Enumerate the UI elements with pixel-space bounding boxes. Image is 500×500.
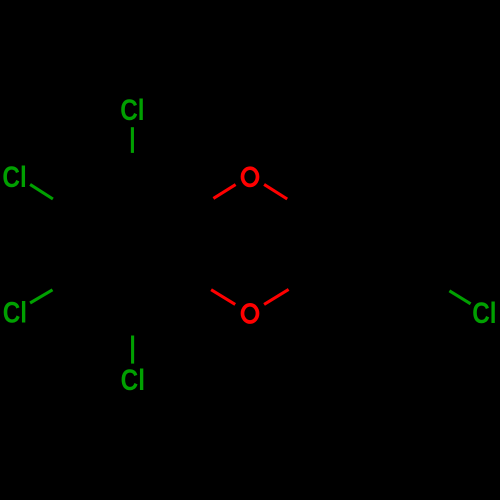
- svg-text:Cl: Cl: [120, 92, 144, 126]
- bond C-Cl right (chlorine half, green stub): [449, 291, 470, 304]
- svg-text:Cl: Cl: [472, 295, 496, 329]
- bond C-Cl top (chlorine half, green stub): [131, 127, 134, 153]
- atom label Cl top: [120, 92, 144, 126]
- atom label O bottom (drawn as ring): [243, 305, 258, 322]
- atom label Cl lower-left: [3, 295, 27, 329]
- atom label O top (drawn as ring): [243, 168, 258, 185]
- bond C-Cl upper-left (carbon half, black): [53, 199, 73, 211]
- bond C-Cl bottom (chlorine half, green stub): [131, 336, 134, 364]
- bond C-Cl right (carbon half, black): [428, 279, 450, 290]
- svg-text:Cl: Cl: [2, 160, 26, 194]
- bond C-Cl lower-left (chlorine half, green stub): [30, 290, 52, 303]
- bond O top to right ring (oxygen half, red stub): [264, 184, 287, 199]
- svg-text:Cl: Cl: [3, 295, 27, 329]
- bond C-Cl top (carbon half, black): [131, 153, 134, 177]
- bond O bottom to left ring (oxygen half, red stub): [211, 290, 235, 305]
- central dioxin ring carbon-half bonds (black on black): [191, 198, 309, 289]
- atom label Cl upper-left: [2, 160, 26, 194]
- bond O top to left ring (oxygen half, red stub): [213, 185, 235, 199]
- bond C-Cl upper-left (chlorine half, green stub): [30, 184, 53, 199]
- svg-text:Cl: Cl: [121, 363, 145, 397]
- bond C-Cl bottom (carbon half, black): [131, 314, 134, 336]
- left benzene ring (carbon skeleton, black on black): [73, 177, 191, 314]
- atom label Cl bottom: [121, 363, 145, 397]
- right benzene ring (carbon skeleton, black on black): [309, 177, 427, 314]
- bond C-Cl lower-left (carbon half, black): [53, 279, 73, 289]
- bond O bottom to right ring (oxygen half, red stub): [264, 289, 289, 304]
- atom label Cl right: [472, 295, 496, 329]
